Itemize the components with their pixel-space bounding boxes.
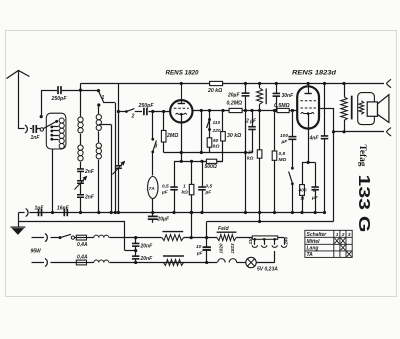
trimmer capacitor [77, 181, 84, 184]
ground symbol [18, 213, 20, 228]
capacitor 20nF (upper) [135, 238, 137, 244]
ground rail wire (left) [19, 221, 126, 223]
svg-text:1820: 1820 [219, 243, 224, 254]
capacitor 30nF [276, 84, 278, 94]
svg-text:500Ω: 500Ω [205, 164, 217, 170]
capacitor 4nF [324, 84, 326, 136]
speaker winding zigzag [359, 101, 364, 115]
wave-band switch lever [43, 122, 56, 129]
wire [80, 172, 82, 181]
wire [80, 183, 82, 194]
resistor 30k&#937; [221, 132, 226, 141]
wire H1 [81, 83, 210, 85]
wire [292, 184, 294, 213]
mains plug bottom [45, 259, 47, 267]
heater 1820 bump [218, 259, 226, 263]
tube U1 RENS 1820 envelope [170, 100, 192, 122]
wire [98, 160, 100, 213]
svg-text:250pF: 250pF [138, 103, 155, 109]
switch (tone) lever [291, 167, 294, 170]
wire [18, 128, 24, 130]
resistor 50k&#937; [207, 138, 212, 147]
transformer core bar [351, 96, 353, 120]
wire output bottom [334, 131, 385, 133]
tube U2 grid2 lead [319, 108, 334, 110]
capacitor 20nF (lower) [132, 256, 140, 259]
svg-text:Tefag: Tefag [358, 145, 368, 168]
wire [98, 131, 100, 142]
svg-text:240: 240 [284, 236, 289, 245]
output choke (field) zigzag [344, 84, 346, 97]
tube U2 cathode lead [308, 114, 310, 162]
mains plug top [45, 234, 47, 242]
svg-text:110: 110 [213, 120, 221, 126]
wire H3 [164, 152, 252, 154]
capacitor 0,5&#181;F (cathode right) [202, 161, 204, 187]
svg-text:20 kΩ: 20 kΩ [207, 88, 222, 94]
wire [135, 111, 142, 113]
wire coil tap [99, 124, 111, 126]
switch contact circle [40, 128, 43, 131]
svg-text:kΩ: kΩ [213, 144, 220, 150]
svg-text:TA: TA [307, 252, 314, 258]
wire H1 left leg [80, 84, 82, 117]
wire [62, 90, 99, 92]
wire [259, 104, 261, 150]
tube U1 cathode lead [181, 115, 183, 162]
voltage selector resistor [252, 236, 277, 239]
svg-text:10: 10 [196, 244, 202, 250]
svg-text:0,2MΩ: 0,2MΩ [227, 100, 243, 106]
wire B+ feed [191, 213, 193, 238]
wire grid RENS 1820 [118, 111, 126, 113]
voltage selector 240 tap [278, 237, 284, 239]
switch 3 wire [152, 112, 154, 139]
resistor 0,2M&#937; [229, 108, 242, 112]
wire [109, 237, 161, 239]
voltage tap selector 110/220 [209, 111, 211, 138]
svg-text:2: 2 [312, 188, 316, 194]
svg-text:0,5MΩ: 0,5MΩ [274, 103, 290, 109]
svg-text:Lang: Lang [307, 246, 319, 252]
svg-text:0,8: 0,8 [279, 151, 286, 157]
wire [118, 168, 120, 212]
capacitor 250pF (grid) [144, 108, 147, 116]
svg-text:20µF: 20µF [157, 217, 170, 223]
svg-text:kΩ: kΩ [247, 156, 254, 162]
switch table [305, 230, 352, 257]
svg-text:3: 3 [155, 144, 158, 150]
capacitor 1nF (antenna) [33, 125, 36, 133]
capacitor 100&#181;F and switch leg [292, 111, 294, 137]
svg-text:20µF: 20µF [227, 93, 240, 99]
wire [259, 158, 261, 221]
bandfilter coil L2a [78, 117, 83, 133]
resistor 0,5M&#937; [277, 108, 289, 112]
switch 1 contact [97, 89, 100, 92]
wire [109, 262, 217, 264]
svg-text:95W: 95W [31, 248, 43, 254]
tube U2 anode [308, 84, 310, 94]
svg-text:133 G: 133 G [355, 175, 372, 233]
terminal plug (top right) [387, 79, 392, 87]
resistor 2M&#937; [163, 112, 165, 131]
wire [237, 262, 246, 264]
switch contact wire from 250pF line [41, 90, 43, 115]
svg-text:2: 2 [131, 114, 135, 120]
resistor 20k&#937; (bleeder) [257, 150, 262, 158]
resistor 0,8M&#937; [274, 111, 276, 152]
antenna coil L1 shield box [46, 113, 66, 149]
wire [236, 237, 252, 239]
wire [87, 237, 94, 239]
capacitor 16nF (bus) [64, 209, 67, 217]
fuse 0,4A (bottom) [76, 260, 86, 265]
dial lamp 5V 0,23A [246, 257, 256, 267]
svg-text:0,4A: 0,4A [77, 254, 88, 260]
svg-text:30nF: 30nF [282, 93, 295, 99]
speaker coil frame [358, 93, 375, 125]
svg-text:16nF: 16nF [57, 205, 70, 211]
wire [163, 142, 165, 153]
capacitor 2nF (lower) [77, 195, 84, 198]
svg-text:RENS 1820: RENS 1820 [166, 70, 199, 77]
svg-text:Ω: Ω [300, 196, 305, 202]
svg-text:2 µF: 2 µF [245, 119, 257, 125]
resistor 20k&#937; (anode load) [210, 81, 223, 85]
grid coil L3a [96, 115, 101, 131]
wire [222, 111, 224, 132]
svg-text:400: 400 [298, 188, 307, 194]
capacitor 20&#181;F (decoupling) [245, 84, 247, 94]
wire [242, 110, 277, 112]
electrolytic 20&#181;F below bus [152, 213, 154, 217]
switch 2 lever [125, 110, 128, 113]
tube U2 RENS 1823d envelope [297, 86, 319, 128]
loudspeaker [367, 102, 377, 116]
tube U1 cathode [176, 113, 187, 114]
svg-text:MΩ: MΩ [279, 157, 287, 163]
wire H4 [174, 161, 223, 163]
wire [87, 262, 94, 264]
capacitor 2&#181;F (middle) [252, 111, 254, 127]
ground rail branch to mains caps [124, 222, 126, 251]
svg-text:1823: 1823 [230, 243, 235, 254]
switch 1 lever [99, 92, 104, 104]
tube U1 anode [181, 84, 183, 104]
svg-text:20nF: 20nF [140, 256, 154, 262]
barretter 7A [148, 177, 158, 199]
ground rail wire (right) [207, 221, 334, 223]
wire [37, 128, 41, 130]
table X marks [335, 238, 340, 244]
svg-text:2MΩ: 2MΩ [166, 133, 178, 139]
wire screen feed [201, 111, 203, 153]
tuning capacitor (variable) [115, 166, 122, 169]
capacitor 2&#181;F (cathode) [315, 162, 317, 187]
svg-text:5V 0,23A: 5V 0,23A [257, 266, 278, 272]
capacitor 1nF (bus) [39, 209, 42, 217]
svg-text:µF: µF [311, 195, 319, 201]
fuse 0,4A (top) [76, 235, 86, 240]
resistor 400&#937; [302, 162, 304, 184]
wire from switch 1 [104, 102, 115, 104]
wire [149, 111, 171, 113]
tube U2 grid 1 (dashed) [300, 100, 316, 102]
svg-text:7A: 7A [149, 186, 155, 191]
wire [80, 162, 82, 169]
svg-text:30 kΩ: 30 kΩ [227, 133, 241, 139]
svg-text:0,4A: 0,4A [77, 242, 88, 248]
bandfilter coil L2b [78, 145, 83, 161]
svg-text:110: 110 [248, 237, 253, 245]
svg-text:100: 100 [280, 133, 288, 139]
tube U2 cathode [301, 112, 314, 113]
heater 1823 bump [229, 259, 237, 263]
wire grid coil top [98, 105, 100, 115]
capacitor 2nF (upper) [77, 169, 84, 172]
svg-text:1nF: 1nF [35, 205, 45, 211]
svg-text:1: 1 [102, 95, 105, 101]
svg-text:0,5: 0,5 [162, 184, 169, 190]
voltage selector taps [254, 239, 256, 245]
wire [289, 110, 297, 112]
svg-text:2: 2 [341, 232, 345, 238]
wire [80, 134, 82, 145]
wire [217, 161, 223, 163]
heating resistor (bottom) with bar [163, 255, 184, 257]
wire [184, 237, 217, 239]
svg-text:4nF: 4nF [309, 135, 320, 141]
capacitor 250pF (antenna coupling) [58, 86, 61, 94]
wire [80, 197, 82, 212]
wire [209, 147, 211, 152]
electrolytic 10&#181;F [206, 222, 208, 248]
grid coil L3b [96, 143, 101, 159]
svg-text:Schalter: Schalter [307, 232, 328, 238]
wire [135, 259, 137, 263]
wire [51, 237, 60, 239]
page border frame [6, 31, 397, 297]
wire grid2 drop [333, 108, 335, 222]
svg-text:kΩ: kΩ [182, 190, 189, 196]
ground bus wire [29, 212, 324, 214]
mains switch [59, 236, 62, 239]
resistor 1k&#937; [191, 161, 193, 184]
antenna coil L1 winding [59, 118, 64, 149]
heating resistor (top) with bar [162, 231, 183, 233]
wire [152, 152, 154, 176]
svg-text:Mittel: Mittel [307, 239, 321, 245]
svg-text:250pF: 250pF [51, 96, 68, 102]
svg-text:µF: µF [161, 190, 169, 196]
svg-text:0,5: 0,5 [206, 184, 213, 190]
terminal plug (bottom right) [387, 128, 392, 136]
svg-text:µF: µF [281, 139, 289, 145]
svg-text:50: 50 [213, 138, 219, 144]
wire from coil to bus [52, 149, 54, 213]
svg-text:Feld: Feld [218, 226, 229, 232]
svg-text:µF: µF [196, 251, 204, 257]
wire [75, 237, 77, 239]
tube U1 grid (dashed) [174, 107, 189, 109]
wire [41, 90, 57, 92]
svg-text:2nF: 2nF [84, 195, 95, 201]
antenna coil L1 tap dots and leads [50, 126, 53, 129]
tube U2 grid 2 (dashed) [300, 107, 316, 109]
svg-text:µF: µF [205, 190, 213, 196]
svg-text:RENS 1823d: RENS 1823d [292, 70, 337, 77]
wire H1 right [223, 83, 384, 85]
mains choke top [94, 235, 109, 238]
wire [51, 262, 77, 264]
bus plug [19, 212, 25, 214]
switch 3 lever [151, 138, 154, 141]
svg-text:1: 1 [336, 232, 339, 238]
wire [30, 128, 32, 130]
antenna [18, 71, 20, 129]
svg-text:1: 1 [183, 184, 186, 190]
wire H2 [193, 110, 230, 112]
svg-text:1nF: 1nF [31, 135, 41, 141]
wire [135, 246, 137, 256]
wire cathode loop top [302, 162, 315, 164]
svg-text:3: 3 [348, 232, 351, 238]
antenna plug [25, 125, 27, 133]
resistor 500&#937; [206, 159, 216, 163]
svg-text:20nF: 20nF [140, 243, 154, 249]
mains lead bottom stub [32, 262, 45, 264]
mains lead top stub [32, 237, 45, 239]
wire [152, 199, 154, 213]
capacitor 0,5&#181;F (cathode left) [174, 161, 176, 187]
svg-text:2nF: 2nF [84, 169, 95, 175]
mains choke bottom [94, 260, 109, 263]
wire tuning leg [118, 84, 120, 166]
wire [256, 262, 275, 264]
potentiometer (volume) with slider bar [259, 84, 261, 89]
svg-text:220: 220 [212, 128, 221, 134]
